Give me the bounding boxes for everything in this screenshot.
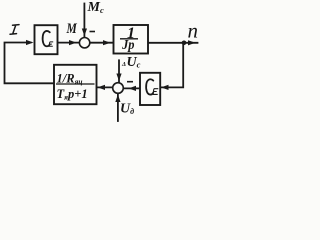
svg-text:Tяp+1: Tяp+1: [57, 87, 88, 102]
svg-text:Δ: Δ: [121, 61, 126, 68]
svg-text:Jp: Jp: [121, 37, 135, 53]
svg-text:n: n: [188, 19, 199, 43]
svg-text:M: M: [66, 20, 78, 37]
